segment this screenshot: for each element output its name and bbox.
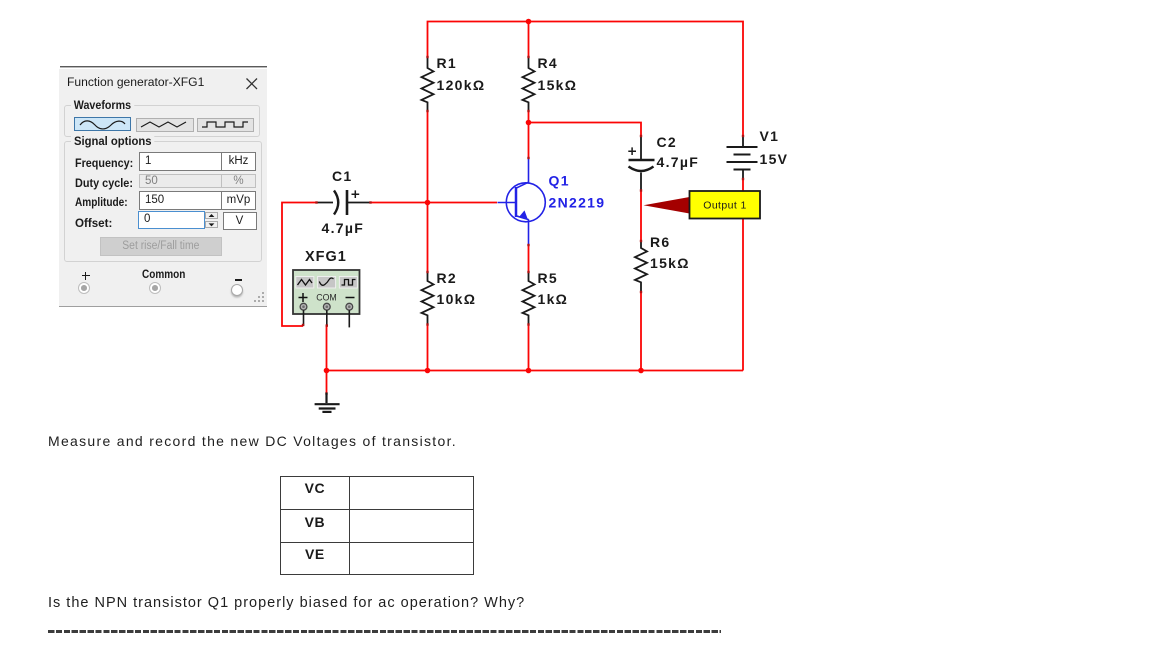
output probe arrow xyxy=(644,197,690,214)
Frequency row xyxy=(75,156,133,170)
svg-text:R6: R6 xyxy=(650,234,671,250)
Q1 emitter arrow xyxy=(520,210,528,218)
svg-text:XFG1: XFG1 xyxy=(305,249,347,265)
wire: R2 bottom to rail xyxy=(427,326,429,371)
wire: R1 bottom to base node xyxy=(427,112,429,203)
svg-text:15kΩ: 15kΩ xyxy=(650,255,690,271)
wire: collector node to C2 xyxy=(529,123,642,136)
sine button (selected) xyxy=(74,117,131,132)
node: ground rail at R2 xyxy=(425,368,431,374)
Amplitude row xyxy=(75,195,128,209)
XFG1 pin COM xyxy=(326,310,328,325)
spinner xyxy=(205,212,218,219)
terminal + (selected) xyxy=(78,282,90,294)
svg-text:2N2219: 2N2219 xyxy=(549,195,606,211)
ground xyxy=(315,393,340,412)
svg-text:Output 1: Output 1 xyxy=(703,200,746,212)
svg-text:R4: R4 xyxy=(538,55,559,71)
wire: R2 top from base node xyxy=(427,203,429,272)
capacitor C1 xyxy=(316,190,372,215)
function generator XFG1 symbol xyxy=(293,270,360,327)
Waveforms groupbox xyxy=(64,105,260,137)
svg-text:C1: C1 xyxy=(332,168,353,184)
node: ground rail at R6 xyxy=(638,368,644,374)
wire: ground rail to ground symbol xyxy=(326,371,328,395)
svg-text:120kΩ: 120kΩ xyxy=(437,77,486,93)
resize grip xyxy=(254,292,266,304)
pin connection nubs xyxy=(302,56,744,395)
Offset row xyxy=(75,216,112,230)
wire: R4 bottom to collector node xyxy=(528,112,530,157)
window top grey bar xyxy=(60,66,267,69)
wire: R4 top stub xyxy=(528,22,530,57)
wire: XFG1 COM to ground rail xyxy=(326,325,328,371)
terminal minus xyxy=(231,284,244,297)
wire: C2 bottom to R6 top xyxy=(640,192,642,241)
svg-text:1kΩ: 1kΩ xyxy=(538,291,569,307)
XFG1 pin minus xyxy=(348,310,350,327)
wire: C1 left loop to XFG1 plus xyxy=(282,203,316,327)
svg-text:R1: R1 xyxy=(437,55,458,71)
resistor R4 xyxy=(523,56,535,112)
wire: R5 bottom to rail xyxy=(528,326,530,371)
wire: bottom ground rail xyxy=(327,370,744,372)
XFG1 pin + xyxy=(303,310,305,326)
node: ground rail at R5 xyxy=(526,368,532,374)
transistor Q1 xyxy=(498,157,546,246)
square button xyxy=(197,118,254,132)
close X xyxy=(245,77,259,91)
wire: R6 bottom to ground rail xyxy=(640,293,642,371)
terminal common xyxy=(149,282,161,294)
Duty cycle row xyxy=(75,176,133,190)
wire: emitter to R5 xyxy=(528,246,530,271)
resistor R6 xyxy=(635,240,647,293)
Signal options groupbox xyxy=(64,141,262,262)
svg-text:R2: R2 xyxy=(437,270,458,286)
svg-text:COM: COM xyxy=(316,293,337,303)
dialog title xyxy=(67,75,204,89)
node: base node at R1/R2/C1 xyxy=(425,200,431,206)
svg-text:4.7µF: 4.7µF xyxy=(657,154,700,170)
svg-text:C2: C2 xyxy=(657,134,678,150)
svg-text:10kΩ: 10kΩ xyxy=(437,291,477,307)
wire: C1 right to base node xyxy=(372,202,428,204)
resistor R1 xyxy=(422,56,434,112)
wire: V1 bottom down xyxy=(742,180,744,371)
svg-text:15V: 15V xyxy=(760,151,789,167)
Set rise/Fall time button xyxy=(100,237,223,257)
terminal labels xyxy=(82,275,90,277)
battery V1 xyxy=(727,135,758,180)
resistor R2 xyxy=(422,271,434,326)
svg-text:Q1: Q1 xyxy=(549,173,570,189)
measurement table xyxy=(280,476,474,575)
svg-text:R5: R5 xyxy=(538,270,559,286)
svg-text:15kΩ: 15kΩ xyxy=(538,77,578,93)
node: top rail / R4 junction xyxy=(526,19,532,25)
resistor R5 xyxy=(523,271,535,326)
node: ground rail at XFG1 COM xyxy=(324,368,330,374)
wire: base node to Q1 base xyxy=(428,202,498,204)
output probe Output 1 xyxy=(690,191,761,219)
dialog body xyxy=(59,69,267,307)
node: collector node to C2 xyxy=(526,120,532,126)
triangle button xyxy=(136,118,194,132)
capacitor C2 xyxy=(628,135,654,192)
wire: top rail R1 top to V1 xyxy=(428,22,744,136)
svg-text:4.7µF: 4.7µF xyxy=(322,220,365,236)
svg-text:V1: V1 xyxy=(760,128,780,144)
